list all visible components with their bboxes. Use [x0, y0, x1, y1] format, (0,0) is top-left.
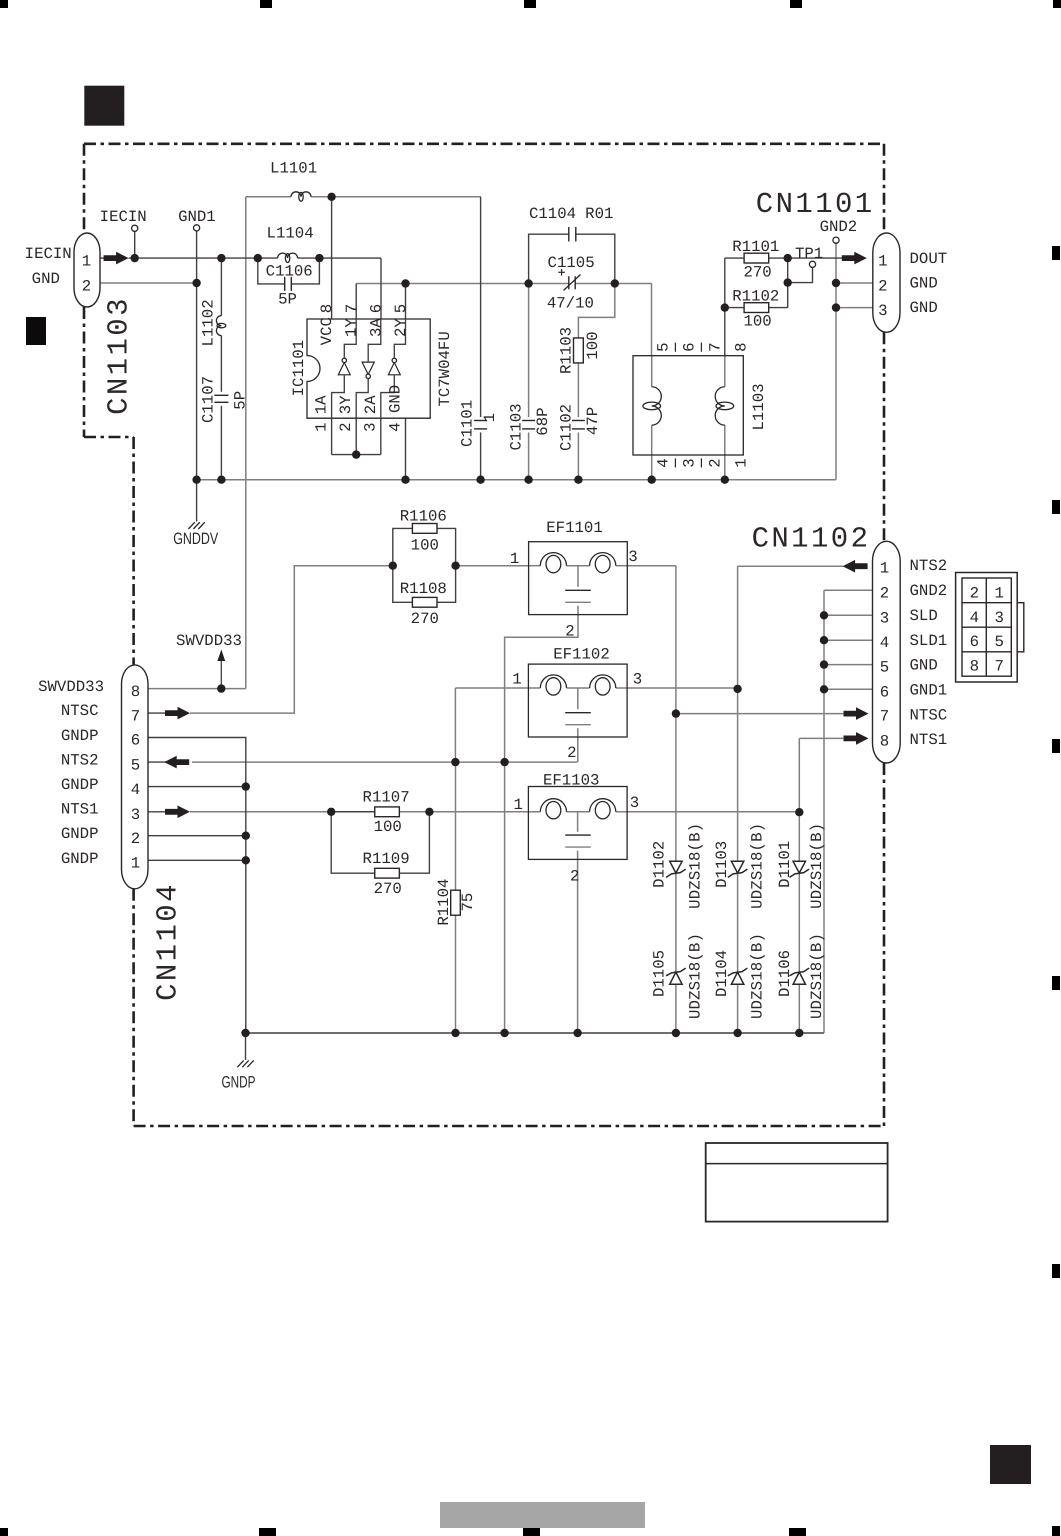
svg-text:L1101: L1101	[270, 160, 317, 178]
svg-text:D1106: D1106	[776, 950, 794, 997]
svg-text:8: 8	[732, 342, 750, 351]
svg-text:3: 3	[633, 671, 642, 689]
svg-text:3: 3	[628, 548, 637, 566]
svg-text:1: 1	[82, 253, 91, 271]
svg-text:GND1: GND1	[910, 681, 948, 699]
svg-text:GNDP: GNDP	[61, 850, 99, 868]
svg-text:2: 2	[131, 830, 140, 848]
svg-text:GNDP: GNDP	[222, 1074, 256, 1092]
svg-text:R1101: R1101	[732, 238, 779, 256]
svg-text:8: 8	[970, 658, 979, 676]
svg-text:2: 2	[706, 458, 724, 467]
svg-text:CN1104: CN1104	[151, 882, 184, 1001]
svg-text:R1109: R1109	[363, 850, 410, 868]
svg-text:1: 1	[880, 559, 889, 577]
svg-text:2: 2	[82, 277, 91, 295]
svg-text:L1102: L1102	[199, 299, 217, 346]
svg-text:EF1103: EF1103	[543, 771, 599, 789]
svg-text:4: 4	[970, 609, 979, 627]
svg-text:47/10: 47/10	[547, 295, 594, 313]
svg-text:GNDP: GNDP	[61, 825, 99, 843]
svg-text:UDZS18(B): UDZS18(B)	[808, 823, 826, 909]
svg-text:100: 100	[743, 312, 771, 330]
svg-text:TP1: TP1	[795, 245, 823, 263]
svg-text:2: 2	[970, 584, 979, 602]
svg-text:IC1101: IC1101	[290, 340, 308, 396]
svg-text:8: 8	[318, 304, 336, 313]
svg-text:D1104: D1104	[713, 950, 731, 997]
svg-text:EF1102: EF1102	[553, 645, 609, 663]
svg-text:NTS2: NTS2	[61, 751, 99, 769]
svg-text:D1105: D1105	[650, 950, 668, 997]
svg-text:GND: GND	[910, 299, 938, 317]
svg-text:1: 1	[313, 422, 331, 431]
svg-text:R1107: R1107	[363, 789, 410, 807]
svg-text:R1108: R1108	[400, 580, 447, 598]
svg-text:CN1102: CN1102	[752, 523, 871, 556]
svg-text:6: 6	[367, 304, 385, 313]
svg-text:CN1103: CN1103	[103, 296, 136, 415]
svg-text:4: 4	[131, 781, 140, 799]
svg-text:270: 270	[743, 263, 771, 281]
svg-text:7: 7	[343, 304, 361, 313]
svg-text:UDZS18(B): UDZS18(B)	[748, 933, 766, 1019]
svg-text:VCC: VCC	[318, 317, 336, 345]
svg-text:270: 270	[374, 880, 402, 898]
svg-text:NTS2: NTS2	[910, 557, 948, 575]
svg-text:6: 6	[131, 732, 140, 750]
svg-text:GND2: GND2	[820, 218, 858, 236]
svg-text:1: 1	[878, 253, 887, 271]
svg-text:1: 1	[510, 550, 519, 568]
svg-text:3A: 3A	[367, 318, 385, 337]
svg-text:6: 6	[880, 683, 889, 701]
svg-text:270: 270	[411, 610, 439, 628]
svg-text:CN1101: CN1101	[756, 188, 875, 221]
svg-text:2: 2	[570, 867, 579, 885]
svg-text:3: 3	[630, 794, 639, 812]
svg-text:NTSC: NTSC	[910, 706, 948, 724]
svg-text:100: 100	[374, 818, 402, 836]
svg-text:1Y: 1Y	[343, 318, 361, 337]
svg-text:TC7W04FU: TC7W04FU	[436, 331, 454, 406]
svg-text:GND: GND	[32, 270, 60, 288]
svg-text:C1107: C1107	[199, 376, 217, 423]
svg-text:SWVDD33: SWVDD33	[38, 678, 104, 696]
svg-text:GND: GND	[386, 385, 404, 413]
svg-text:D1101: D1101	[776, 841, 794, 888]
svg-text:R1106: R1106	[400, 507, 447, 525]
svg-text:C1101: C1101	[458, 400, 476, 447]
svg-text:2: 2	[337, 422, 355, 431]
svg-text:2Y: 2Y	[392, 318, 410, 337]
svg-text:2: 2	[878, 277, 887, 295]
svg-text:4: 4	[386, 422, 404, 431]
svg-text:1A: 1A	[313, 395, 331, 414]
svg-text:4: 4	[654, 458, 672, 467]
svg-text:GNDP: GNDP	[61, 776, 99, 794]
svg-text:UDZS18(B): UDZS18(B)	[687, 933, 705, 1019]
svg-text:100: 100	[584, 331, 602, 359]
svg-text:7: 7	[131, 707, 140, 725]
svg-text:R1103: R1103	[558, 327, 576, 374]
svg-text:5P: 5P	[232, 391, 250, 410]
svg-text:1: 1	[513, 796, 522, 814]
svg-text:C1104: C1104	[529, 205, 576, 223]
svg-text:47P: 47P	[584, 407, 602, 435]
svg-text:DOUT: DOUT	[910, 250, 948, 268]
svg-text:5: 5	[654, 342, 672, 351]
svg-text:L1103: L1103	[750, 383, 768, 430]
svg-text:C1106: C1106	[266, 262, 313, 280]
svg-text:NTSC: NTSC	[61, 702, 99, 720]
svg-text:5: 5	[880, 659, 889, 677]
svg-text:GND1: GND1	[178, 208, 216, 226]
svg-text:3: 3	[680, 458, 698, 467]
svg-text:C1103: C1103	[507, 403, 525, 450]
svg-text:EF1101: EF1101	[546, 519, 602, 537]
svg-text:2: 2	[567, 744, 576, 762]
svg-text:1: 1	[131, 854, 140, 872]
svg-text:1: 1	[481, 413, 499, 422]
svg-text:GNDDV: GNDDV	[173, 530, 218, 548]
svg-text:GND2: GND2	[910, 582, 948, 600]
svg-text:NTS1: NTS1	[61, 801, 99, 819]
svg-text:R01: R01	[585, 205, 613, 223]
svg-text:UDZS18(B): UDZS18(B)	[808, 933, 826, 1019]
svg-text:SLD: SLD	[910, 607, 938, 625]
svg-text:5: 5	[392, 304, 410, 313]
svg-text:C1105: C1105	[548, 254, 595, 272]
svg-text:GNDP: GNDP	[61, 727, 99, 745]
svg-text:UDZS18(B): UDZS18(B)	[687, 823, 705, 909]
svg-text:GND: GND	[910, 656, 938, 674]
svg-text:3: 3	[878, 302, 887, 320]
svg-text:3Y: 3Y	[337, 395, 355, 414]
svg-text:GND: GND	[910, 274, 938, 292]
svg-text:1: 1	[512, 671, 521, 689]
svg-text:SLD1: SLD1	[910, 632, 948, 650]
svg-text:UDZS18(B): UDZS18(B)	[748, 823, 766, 909]
svg-text:R1104: R1104	[435, 879, 453, 926]
svg-text:75: 75	[459, 893, 477, 912]
svg-text:D1102: D1102	[650, 841, 668, 888]
svg-text:SWVDD33: SWVDD33	[176, 632, 242, 650]
svg-text:6: 6	[970, 633, 979, 651]
svg-text:8: 8	[880, 732, 889, 750]
svg-text:100: 100	[411, 537, 439, 555]
svg-text:6: 6	[680, 342, 698, 351]
svg-text:3: 3	[880, 609, 889, 627]
svg-text:5: 5	[131, 756, 140, 774]
svg-text:8: 8	[131, 683, 140, 701]
svg-text:3: 3	[994, 609, 1003, 627]
svg-text:IECIN: IECIN	[25, 245, 72, 263]
svg-text:L1104: L1104	[267, 224, 314, 242]
svg-text:R1102: R1102	[732, 287, 779, 305]
svg-text:7: 7	[880, 708, 889, 726]
svg-text:NTS1: NTS1	[910, 731, 948, 749]
svg-text:7: 7	[994, 658, 1003, 676]
svg-text:IECIN: IECIN	[100, 208, 147, 226]
svg-text:3: 3	[131, 806, 140, 824]
svg-text:2: 2	[880, 584, 889, 602]
svg-text:D1103: D1103	[713, 841, 731, 888]
svg-text:4: 4	[880, 634, 889, 652]
svg-text:1: 1	[732, 458, 750, 467]
svg-text:5: 5	[994, 633, 1003, 651]
svg-text:5P: 5P	[278, 291, 297, 309]
svg-text:C1102: C1102	[557, 404, 575, 451]
svg-text:2A: 2A	[362, 395, 380, 414]
svg-text:3: 3	[362, 422, 380, 431]
svg-text:7: 7	[706, 342, 724, 351]
svg-text:68P: 68P	[534, 407, 552, 435]
svg-text:2: 2	[565, 622, 574, 640]
svg-text:1: 1	[994, 584, 1003, 602]
